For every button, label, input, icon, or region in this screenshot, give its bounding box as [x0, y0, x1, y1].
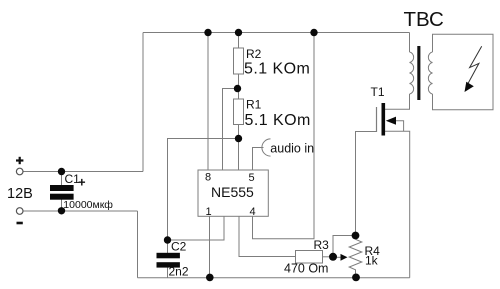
wire: R3 junction up and over to R4 top — [333, 236, 356, 257]
node pin1 ground — [206, 274, 214, 282]
svg-text:5.1 KOm: 5.1 KOm — [245, 112, 311, 129]
node VCC reset riser — [310, 29, 317, 36]
wire: R4 top to T1 gate — [356, 132, 377, 236]
wire: C2 bottom stub — [167, 268, 169, 278]
svg-text:470 Om: 470 Om — [284, 262, 328, 276]
capacitor C2 — [157, 253, 180, 268]
svg-text:4: 4 — [250, 206, 256, 218]
wire: secondary to output box loop — [433, 34, 494, 109]
svg-text:1: 1 — [206, 206, 212, 218]
wire: wiper arrow lead — [334, 256, 341, 258]
svg-text:R3: R3 — [314, 238, 330, 252]
wire: pin 4 reset to VCC riser — [253, 33, 315, 239]
potentiometer R4 zigzag — [349, 239, 362, 273]
svg-text:12В: 12В — [7, 186, 33, 202]
wire: R2 bottom lead — [238, 74, 240, 99]
T1 channel bar — [382, 103, 386, 136]
resistor R1 — [234, 99, 244, 125]
node VCC R2 — [235, 29, 242, 36]
svg-text:R1: R1 — [246, 98, 262, 112]
wire: C2 top stub — [167, 240, 169, 253]
wire: T1 source lead down to ground rail — [385, 131, 410, 277]
svg-text:NE555: NE555 — [211, 184, 254, 200]
capacitor C1 — [50, 185, 74, 200]
wire: minus lead to ground drop — [23, 210, 138, 212]
wire: + rail from battery to left riser — [23, 171, 143, 173]
node C1 top — [58, 168, 65, 175]
svg-text:+: + — [78, 175, 86, 190]
terminal + (battery positive) — [16, 157, 23, 164]
svg-text:ТВС: ТВС — [404, 8, 445, 31]
resistor R3 — [296, 251, 323, 264]
svg-text:5.1 KOm: 5.1 KOm — [244, 61, 310, 78]
wire: pin 1 to ground — [209, 216, 211, 277]
wire: R3 output to junction — [323, 256, 334, 258]
op-amp U1: NE555 timer box — [198, 170, 268, 216]
T1 gate bar — [376, 107, 378, 132]
transformer primary winding — [410, 52, 414, 94]
wire: T1 drain lead — [385, 94, 410, 109]
wire: VCC to pin 8 — [207, 33, 209, 171]
wire: pin 5 to audio in — [253, 148, 264, 171]
wire: C1 bottom stub — [61, 198, 63, 211]
spark lightning bolt — [468, 46, 482, 83]
wire: transformer primary top lead — [409, 33, 411, 53]
transformer core — [417, 46, 420, 100]
wire: R2 top lead — [238, 33, 240, 49]
node R2/R1 — [234, 85, 241, 92]
svg-text:C2: C2 — [171, 239, 187, 253]
svg-text:2n2: 2n2 — [169, 265, 189, 279]
node R4 top — [352, 232, 360, 240]
wire: C1 top stub — [61, 172, 63, 186]
wire: bottom ground rail — [138, 277, 410, 279]
terminal - (battery negative) — [17, 222, 23, 225]
transformer secondary winding — [428, 52, 432, 94]
terminal circle positive — [16, 168, 23, 175]
svg-text:1k: 1k — [365, 253, 379, 267]
node R3 output — [329, 253, 337, 261]
wire: R1 bottom lead to pin 6 — [238, 125, 240, 171]
wire: left riser up to top rail — [142, 33, 144, 172]
node VCC pin8 — [204, 29, 211, 36]
wire: R1 bottom junction to C2 — [168, 139, 239, 241]
audio in connector arc — [262, 139, 271, 156]
wire: R2/R1 junction to pin 7 — [223, 89, 238, 171]
wire: T1 body line — [396, 121, 404, 132]
wire: top VCC rail — [143, 32, 410, 34]
T1 body arrow — [386, 117, 396, 125]
node C2 top — [164, 236, 171, 243]
svg-text:10000мкф: 10000мкф — [63, 199, 113, 211]
svg-text:8: 8 — [205, 172, 211, 184]
wire: pin 3 output to R3 — [239, 216, 296, 256]
svg-text:R2: R2 — [246, 47, 262, 61]
svg-text:5: 5 — [249, 172, 255, 184]
node C1 bottom — [58, 207, 65, 214]
wiper arrow of R4 — [341, 254, 348, 261]
terminal circle negative — [16, 208, 23, 215]
svg-text:audio in: audio in — [270, 141, 314, 155]
wire: ground drop — [137, 211, 139, 278]
wire: C2 junction to pin 2 — [168, 216, 225, 240]
node R4 bottom — [352, 274, 360, 282]
svg-text:T1: T1 — [371, 85, 385, 99]
resistor R2 — [234, 48, 244, 74]
node R1 bottom — [235, 135, 242, 142]
